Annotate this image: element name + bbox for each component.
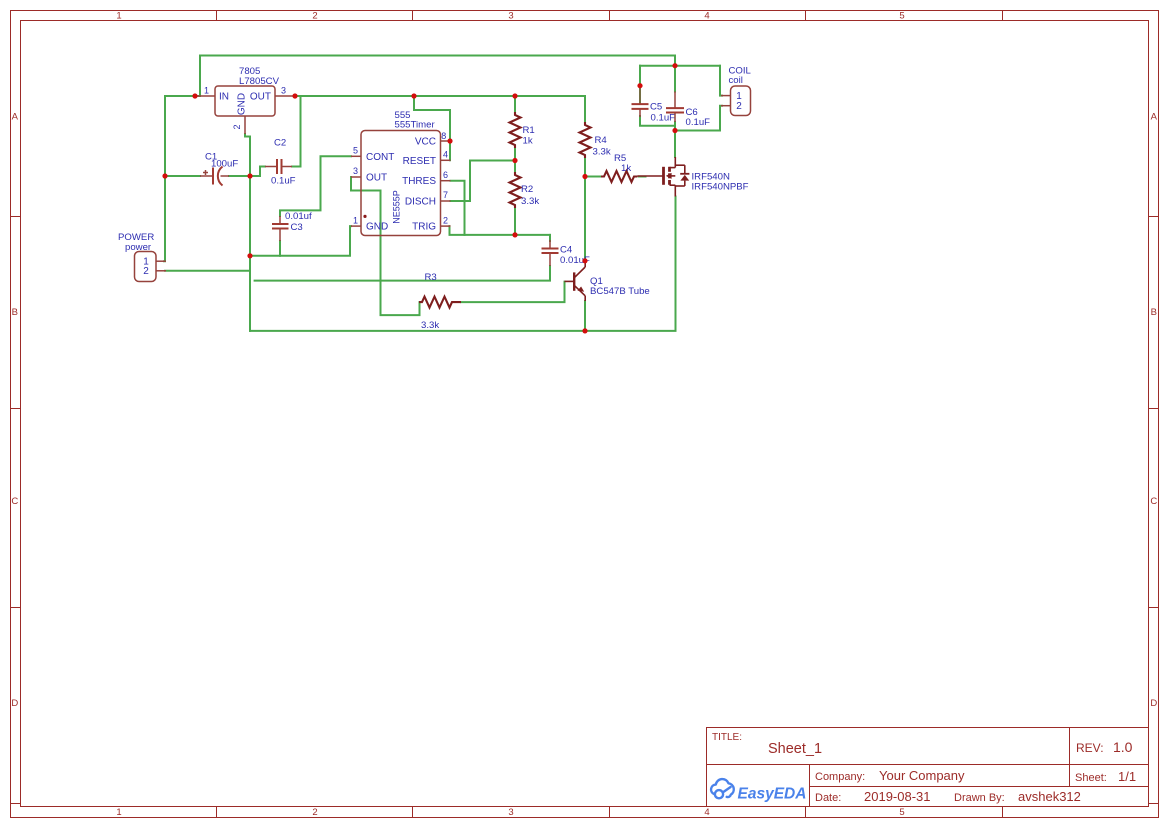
svg-text:1k: 1k	[523, 136, 533, 147]
junction C1 C2 gnd node	[247, 173, 252, 178]
svg-text:TRIG: TRIG	[412, 222, 436, 233]
svg-text:3.3k: 3.3k	[521, 196, 539, 207]
wire r1 leads	[514, 96, 516, 112]
wire coil pin2	[675, 106, 722, 131]
svg-text:C2: C2	[274, 138, 286, 149]
svg-text:1.0: 1.0	[1113, 739, 1133, 755]
resistor R4 3.3k	[580, 122, 591, 158]
svg-text:R4: R4	[595, 135, 608, 146]
capacitor C5 0.1uF	[632, 87, 649, 117]
wire coil pin1	[720, 66, 722, 96]
ic 555 timer U NE555P	[351, 131, 451, 236]
junction R4 R5	[582, 174, 587, 179]
svg-text:0.1uF: 0.1uF	[651, 113, 676, 124]
EasyEDA logo	[711, 779, 806, 802]
svg-text:4: 4	[704, 807, 709, 818]
svg-text:OUT: OUT	[250, 92, 271, 103]
wire c6 bottom	[674, 122, 676, 131]
capacitor C2 0.1uF	[265, 159, 292, 174]
svg-text:avshek312: avshek312	[1018, 789, 1081, 804]
wire c4 bottom to left	[255, 266, 550, 281]
svg-text:L7805CV: L7805CV	[239, 76, 280, 87]
svg-text:6: 6	[443, 170, 448, 180]
junction Q1 collector	[582, 258, 587, 263]
mosfet Q IRF540N	[638, 157, 690, 197]
svg-text:A: A	[12, 112, 19, 123]
svg-text:1k: 1k	[621, 163, 631, 174]
junction at 7805 pin1	[192, 93, 197, 98]
svg-text:100uF: 100uF	[211, 159, 238, 170]
svg-text:5: 5	[899, 11, 904, 22]
wire r4 leads	[584, 96, 586, 122]
connector P POWER	[135, 252, 167, 282]
svg-text:TITLE:: TITLE:	[712, 732, 742, 743]
junction Q1 emitter bottom rail	[582, 328, 587, 333]
wire r3 to q1 base	[461, 282, 565, 303]
svg-text:8: 8	[441, 131, 446, 141]
junction dots	[162, 63, 677, 333]
TITLE BLOCK	[707, 728, 1149, 807]
svg-text:REV:: REV:	[1076, 741, 1104, 755]
svg-text:GND: GND	[237, 93, 248, 115]
wire C1 right	[229, 175, 250, 177]
svg-text:A: A	[1151, 112, 1158, 123]
svg-text:D: D	[1150, 698, 1157, 709]
svg-text:R3: R3	[425, 272, 437, 283]
svg-text:Drawn By:: Drawn By:	[954, 792, 1005, 804]
svg-text:C4: C4	[560, 245, 573, 256]
svg-text:power: power	[125, 242, 152, 253]
svg-text:1/1: 1/1	[1118, 769, 1136, 784]
svg-text:0.1uF: 0.1uF	[271, 176, 296, 187]
svg-text:5: 5	[353, 146, 358, 156]
svg-text:3: 3	[281, 86, 286, 96]
555 pin1 marker	[363, 215, 366, 218]
svg-text:VCC: VCC	[415, 137, 436, 148]
wire vcc rail right	[295, 95, 585, 97]
svg-text:3.3k: 3.3k	[421, 320, 439, 331]
svg-text:2: 2	[232, 124, 242, 129]
wire q1 emitter down	[584, 301, 586, 331]
wire c5c6 top branch	[640, 65, 720, 67]
svg-text:R1: R1	[523, 125, 535, 136]
svg-text:1: 1	[353, 215, 358, 225]
svg-text:GND: GND	[366, 222, 388, 233]
wire C2 left	[250, 167, 265, 177]
wire bottom rail	[250, 197, 676, 331]
junction vcc rail to R1	[512, 93, 517, 98]
wire power pin2	[165, 270, 250, 272]
capacitor C4 0.01uF	[542, 240, 559, 266]
svg-text:OUT: OUT	[366, 173, 387, 184]
junction C5 top	[637, 83, 642, 88]
svg-text:2: 2	[312, 11, 317, 22]
svg-text:1: 1	[116, 807, 121, 818]
wire c3 bottom	[279, 241, 281, 256]
svg-text:C5: C5	[650, 102, 662, 113]
junction left rail C1	[162, 173, 167, 178]
svg-text:Your Company: Your Company	[879, 768, 965, 783]
wire rail to 555 vcc/reset	[414, 96, 450, 160]
svg-text:5: 5	[899, 807, 904, 818]
wire q1 collector net	[584, 177, 586, 261]
wire 7805 gnd jog	[245, 134, 250, 176]
junction top node C6	[672, 63, 677, 68]
junction C6 bottom drain	[672, 128, 677, 133]
svg-text:0.01uf: 0.01uf	[285, 211, 312, 222]
svg-text:THRES: THRES	[402, 176, 436, 187]
SCHEMATIC WIRES	[164, 56, 722, 331]
wire left rail lower	[164, 176, 165, 261]
transistor Q1 BC547B	[565, 261, 586, 301]
svg-text:C3: C3	[291, 222, 303, 233]
wire C1 left	[165, 175, 200, 177]
capacitor C3 0.01uf	[272, 216, 289, 241]
svg-text:B: B	[12, 307, 18, 318]
svg-text:2019-08-31: 2019-08-31	[864, 789, 931, 804]
svg-text:EasyEDA: EasyEDA	[738, 786, 807, 803]
connector P COIL	[721, 86, 751, 116]
wire r1r2 junction to disch	[451, 161, 516, 202]
wire mid vertical rail	[249, 176, 251, 331]
svg-text:1: 1	[116, 11, 121, 22]
junction vcc rail to 555	[411, 93, 416, 98]
resistor R1 1k	[510, 112, 521, 148]
svg-text:IN: IN	[219, 92, 229, 103]
svg-text:2: 2	[736, 101, 742, 112]
resistor R3 3.3k (horizontal)	[419, 297, 461, 308]
svg-text:B: B	[1151, 307, 1157, 318]
svg-text:CONT: CONT	[366, 152, 394, 163]
svg-text:555Timer: 555Timer	[395, 120, 436, 131]
svg-text:2: 2	[443, 215, 448, 225]
wire vcc rail left	[165, 95, 199, 97]
wire cont to c3	[280, 156, 351, 216]
wire thres down	[451, 181, 465, 235]
wire left rail upper	[164, 96, 166, 176]
wire r2 leads	[514, 161, 516, 173]
svg-text:BC547B Tube: BC547B Tube	[590, 286, 650, 297]
wire out to r3	[351, 177, 420, 315]
wire c5 top	[639, 66, 641, 103]
wire 555 gnd down	[250, 226, 351, 256]
svg-text:Sheet_1: Sheet_1	[768, 741, 822, 757]
svg-text:D: D	[11, 698, 18, 709]
junction 555 VCC pin8	[447, 138, 452, 143]
junction gnd rail	[247, 253, 252, 258]
svg-text:3.3k: 3.3k	[593, 147, 611, 158]
capacitor C6 0.1uF	[666, 92, 684, 123]
svg-text:3: 3	[508, 11, 513, 22]
svg-text:coil: coil	[729, 75, 743, 86]
svg-text:2: 2	[143, 266, 149, 277]
svg-text:NE555P: NE555P	[392, 190, 402, 224]
svg-text:0.1uF: 0.1uF	[686, 117, 711, 128]
svg-text:C: C	[11, 496, 18, 507]
svg-text:1: 1	[204, 86, 209, 96]
svg-text:4: 4	[443, 150, 448, 160]
junction R2 trig rail	[512, 232, 517, 237]
svg-text:3: 3	[508, 807, 513, 818]
svg-text:Company:: Company:	[815, 771, 865, 783]
svg-text:IRF540NPBF: IRF540NPBF	[692, 182, 749, 193]
svg-text:7: 7	[443, 190, 448, 200]
wire top rail	[200, 56, 675, 97]
svg-text:RESET: RESET	[403, 156, 436, 167]
svg-text:R2: R2	[521, 184, 533, 195]
resistor R5 1k (horizontal)	[601, 171, 638, 182]
wire C2 right riser	[292, 96, 301, 167]
svg-text:4: 4	[704, 11, 709, 22]
svg-text:Sheet:: Sheet:	[1075, 772, 1107, 784]
wire trig rail	[450, 226, 551, 235]
svg-text:IRF540N: IRF540N	[692, 171, 730, 182]
wire r5 leads	[585, 176, 601, 178]
regulator U 7805	[195, 86, 295, 134]
svg-text:2: 2	[312, 807, 317, 818]
svg-text:3: 3	[353, 166, 358, 176]
resistor R2 3.3k	[510, 172, 521, 208]
wire c6 top	[674, 66, 676, 92]
svg-text:Date:: Date:	[815, 792, 841, 804]
wire mosfet drain	[674, 131, 676, 158]
svg-text:C: C	[1150, 496, 1157, 507]
junction R1 R2	[512, 158, 517, 163]
wire c5 bottom	[640, 116, 675, 126]
junction at 7805 pin3	[292, 93, 297, 98]
svg-text:DISCH: DISCH	[405, 197, 436, 208]
capacitor C1 100uF electrolytic	[200, 167, 229, 186]
